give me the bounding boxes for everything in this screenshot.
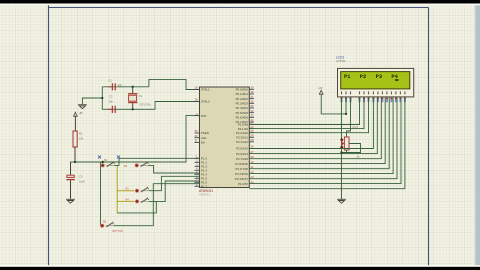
svg-text:39: 39 — [251, 86, 254, 90]
svg-text:19: 19 — [195, 86, 198, 90]
svg-text:R1: R1 — [79, 131, 83, 135]
svg-text:10k: 10k — [79, 136, 84, 140]
sheet border — [49, 0, 429, 270]
wire left cap common — [101, 87, 103, 110]
svg-text:30: 30 — [195, 134, 198, 138]
svg-text:C1: C1 — [108, 79, 112, 83]
wire button5 to P1.6 — [114, 184, 200, 226]
pin P2.1/A9 (22) — [249, 128, 254, 130]
svg-text:CRYSTAL: CRYSTAL — [140, 103, 152, 107]
wire E — [249, 97, 368, 133]
wire data 4 — [249, 97, 389, 169]
microcontroller U1 AT89C51 — [200, 87, 250, 188]
svg-text:P0.5/AD5: P0.5/AD5 — [236, 111, 249, 115]
wire yellow stub b3 — [117, 190, 134, 192]
svg-text:+5V: +5V — [318, 88, 323, 90]
top letterbox bar — [0, 3, 480, 5]
pin P1.3 (4) — [195, 169, 200, 171]
node cap-ground junction — [101, 97, 103, 99]
wire +5V to VDD — [321, 94, 346, 114]
svg-text:P2.7/A15: P2.7/A15 — [236, 157, 248, 161]
node XTAL2/crystal-bottom junction — [132, 108, 134, 110]
svg-text:P2.5/A13: P2.5/A13 — [236, 147, 248, 151]
wire pot wiper loop — [347, 144, 361, 153]
wire data 1 — [249, 97, 377, 154]
LCD pin labels VSS VDD VEE RS RW E D0-D7 — [341, 98, 343, 103]
svg-text:BUTTON: BUTTON — [113, 230, 123, 233]
svg-text:34: 34 — [251, 109, 254, 113]
push button B2 — [135, 164, 138, 167]
pin P0.0/AD0 (39) — [249, 88, 254, 90]
wire yellow rail — [116, 165, 118, 213]
svg-text:C3: C3 — [79, 175, 83, 179]
svg-text:P0.6/AD6: P0.6/AD6 — [236, 116, 249, 120]
wire VSS to ground — [341, 97, 343, 199]
pin P0.2/AD2 (37) — [249, 98, 254, 100]
pin P0.5/AD5 (34) — [249, 112, 254, 114]
svg-text:P3.4/T0: P3.4/T0 — [238, 182, 249, 186]
svg-text:P2: P2 — [360, 74, 366, 80]
svg-text:XTAL2: XTAL2 — [201, 100, 210, 104]
svg-text:P2.6/A14: P2.6/A14 — [236, 152, 248, 156]
wire VDD down — [345, 97, 347, 114]
svg-text:29: 29 — [195, 129, 198, 133]
svg-text:31: 31 — [195, 139, 198, 143]
wire VEE to pot — [347, 97, 351, 137]
svg-text:P3: P3 — [376, 74, 382, 80]
node R1/C3 junction — [74, 161, 76, 163]
pin P1.1 (2) — [195, 161, 200, 163]
push button B3 — [135, 189, 138, 192]
wire data 0 — [249, 97, 373, 149]
pin RST (9) — [195, 115, 200, 117]
wire data 7 — [249, 97, 401, 184]
svg-text:XTAL1: XTAL1 — [201, 88, 210, 92]
pin P2.3/A11 (24) — [249, 136, 254, 138]
svg-text:P2.3/A11: P2.3/A11 — [236, 136, 248, 140]
svg-text:24: 24 — [251, 134, 254, 138]
wire data 3 — [249, 97, 385, 164]
pin EA (31) — [195, 141, 200, 143]
pin P0.6/AD6 (33) — [249, 116, 254, 118]
pin P0.7/AD7 (32) — [249, 121, 254, 123]
bottom letterbox bar — [0, 265, 480, 267]
svg-text:B3: B3 — [126, 187, 130, 191]
wire C3 to ground — [70, 180, 72, 199]
pin P1.7 (8) — [195, 185, 200, 187]
svg-text:AT89C51: AT89C51 — [199, 193, 210, 197]
wire button4 common leg — [117, 201, 156, 213]
svg-text:B2: B2 — [124, 164, 128, 168]
wire data 6 — [249, 97, 397, 179]
svg-text:38: 38 — [251, 90, 254, 94]
pin P0.3/AD3 (36) — [249, 102, 254, 104]
svg-text:B1: B1 — [104, 158, 108, 162]
svg-text:X1: X1 — [139, 94, 143, 98]
node marker blue 1 — [98, 156, 101, 159]
svg-text:+5V: +5V — [79, 113, 84, 115]
svg-text:P0.4/AD4: P0.4/AD4 — [236, 106, 249, 110]
crystal X1 — [132, 87, 134, 94]
pin P2.4/A12 (25) — [249, 141, 254, 143]
svg-text:33: 33 — [251, 114, 254, 118]
svg-text:35: 35 — [251, 104, 254, 108]
pin XTAL2 (18) — [195, 101, 200, 103]
wire RW — [249, 97, 364, 129]
pin P1.5 (6) — [195, 177, 200, 179]
push button B5 — [101, 224, 104, 227]
node marker blue 2 — [117, 156, 120, 159]
svg-text:C2: C2 — [109, 95, 113, 99]
pin P2.0/A8 (21) — [249, 124, 254, 126]
svg-text:P3.3/INT1: P3.3/INT1 — [235, 177, 248, 181]
svg-text:P4: P4 — [391, 74, 398, 80]
svg-text:10uF: 10uF — [79, 180, 86, 184]
svg-text:AT89C51: AT89C51 — [199, 189, 213, 193]
svg-text:30p: 30p — [109, 100, 114, 104]
svg-text:P3.1/TXD: P3.1/TXD — [235, 167, 248, 171]
wire data 2 — [249, 97, 381, 159]
potentiometer RV1 — [344, 137, 349, 150]
push button B1 — [101, 164, 104, 167]
pin P0.1/AD1 (38) — [249, 93, 254, 95]
pin P1.2 (3) — [195, 165, 200, 167]
svg-text:RST: RST — [201, 114, 207, 118]
pin XTAL1 (19) — [195, 89, 200, 91]
wire left rail — [100, 162, 102, 226]
svg-text:30p: 30p — [118, 83, 123, 87]
svg-text:LM016L: LM016L — [336, 59, 347, 63]
svg-text:P2.2/A10: P2.2/A10 — [236, 131, 248, 135]
wire RS — [249, 97, 359, 125]
power +5V (LCD VDD) — [319, 90, 323, 94]
wire cap common to ground — [82, 98, 102, 104]
LCD LM016L body — [338, 68, 414, 97]
svg-text:ALE: ALE — [201, 136, 207, 140]
resistor R1 — [73, 131, 77, 147]
svg-text:37: 37 — [251, 95, 254, 99]
LCD screen — [341, 72, 410, 89]
node VDD junction — [345, 113, 347, 115]
pin ALE (30) — [195, 137, 200, 139]
wire R1 to node — [74, 147, 76, 162]
svg-text:P0.0/AD0: P0.0/AD0 — [236, 88, 249, 92]
pin P0.4/AD4 (35) — [249, 107, 254, 109]
capacitor C2 — [112, 106, 115, 113]
ground (crystal caps) — [78, 105, 87, 109]
svg-text:25: 25 — [251, 138, 254, 142]
svg-text:P1.7: P1.7 — [201, 185, 207, 189]
pin P1.6 (7) — [195, 181, 200, 183]
wire node to C3 — [70, 162, 72, 175]
LCD pin numbers — [341, 91, 342, 94]
node XTAL1/crystal-top junction — [132, 86, 134, 88]
ground (LCD/pot) — [337, 199, 346, 203]
svg-text:PSEN: PSEN — [201, 131, 209, 135]
svg-text:EA: EA — [201, 141, 205, 145]
svg-text:P0.1/AD1: P0.1/AD1 — [236, 92, 249, 96]
wire RST net — [75, 116, 200, 162]
svg-text:P0.3/AD3: P0.3/AD3 — [236, 102, 249, 106]
svg-text:P3.0/RXD: P3.0/RXD — [235, 162, 248, 166]
pin PSEN (29) — [195, 132, 200, 134]
wire node across — [70, 161, 75, 163]
pin P1.4 (5) — [195, 173, 200, 175]
capacitor C1 — [112, 83, 115, 90]
wire data 8 — [249, 97, 405, 189]
svg-text:P1: P1 — [344, 74, 350, 80]
svg-text:18: 18 — [195, 98, 198, 102]
wire yellow stub b4 — [117, 200, 134, 202]
push button B4 — [135, 200, 138, 203]
wire XTAL1 net — [102, 86, 149, 88]
pin P1.0 (1) — [195, 157, 200, 159]
svg-text:P2.4/A12: P2.4/A12 — [236, 140, 248, 144]
wire button4 to P1.5 — [149, 181, 200, 201]
svg-text:B4: B4 — [126, 197, 130, 201]
wire button2 to P1.3 — [149, 165, 200, 173]
svg-text:36: 36 — [251, 100, 254, 104]
wire data 5 — [249, 97, 393, 174]
wire XTAL2 net — [102, 102, 199, 110]
svg-text:P3.2/INT0: P3.2/INT0 — [235, 172, 248, 176]
ground (C3) — [66, 199, 75, 203]
capacitor C3 — [67, 175, 74, 177]
wire button1 to P1.0 — [115, 158, 200, 165]
power +5V (reset) — [74, 112, 78, 116]
svg-text:B5: B5 — [103, 219, 107, 223]
svg-text:P0.2/AD2: P0.2/AD2 — [236, 97, 249, 101]
wire button3 to P1.4 — [149, 176, 200, 190]
pin P2.2/A10 (23) — [249, 132, 254, 134]
wire pot bottom to ground — [342, 150, 347, 153]
